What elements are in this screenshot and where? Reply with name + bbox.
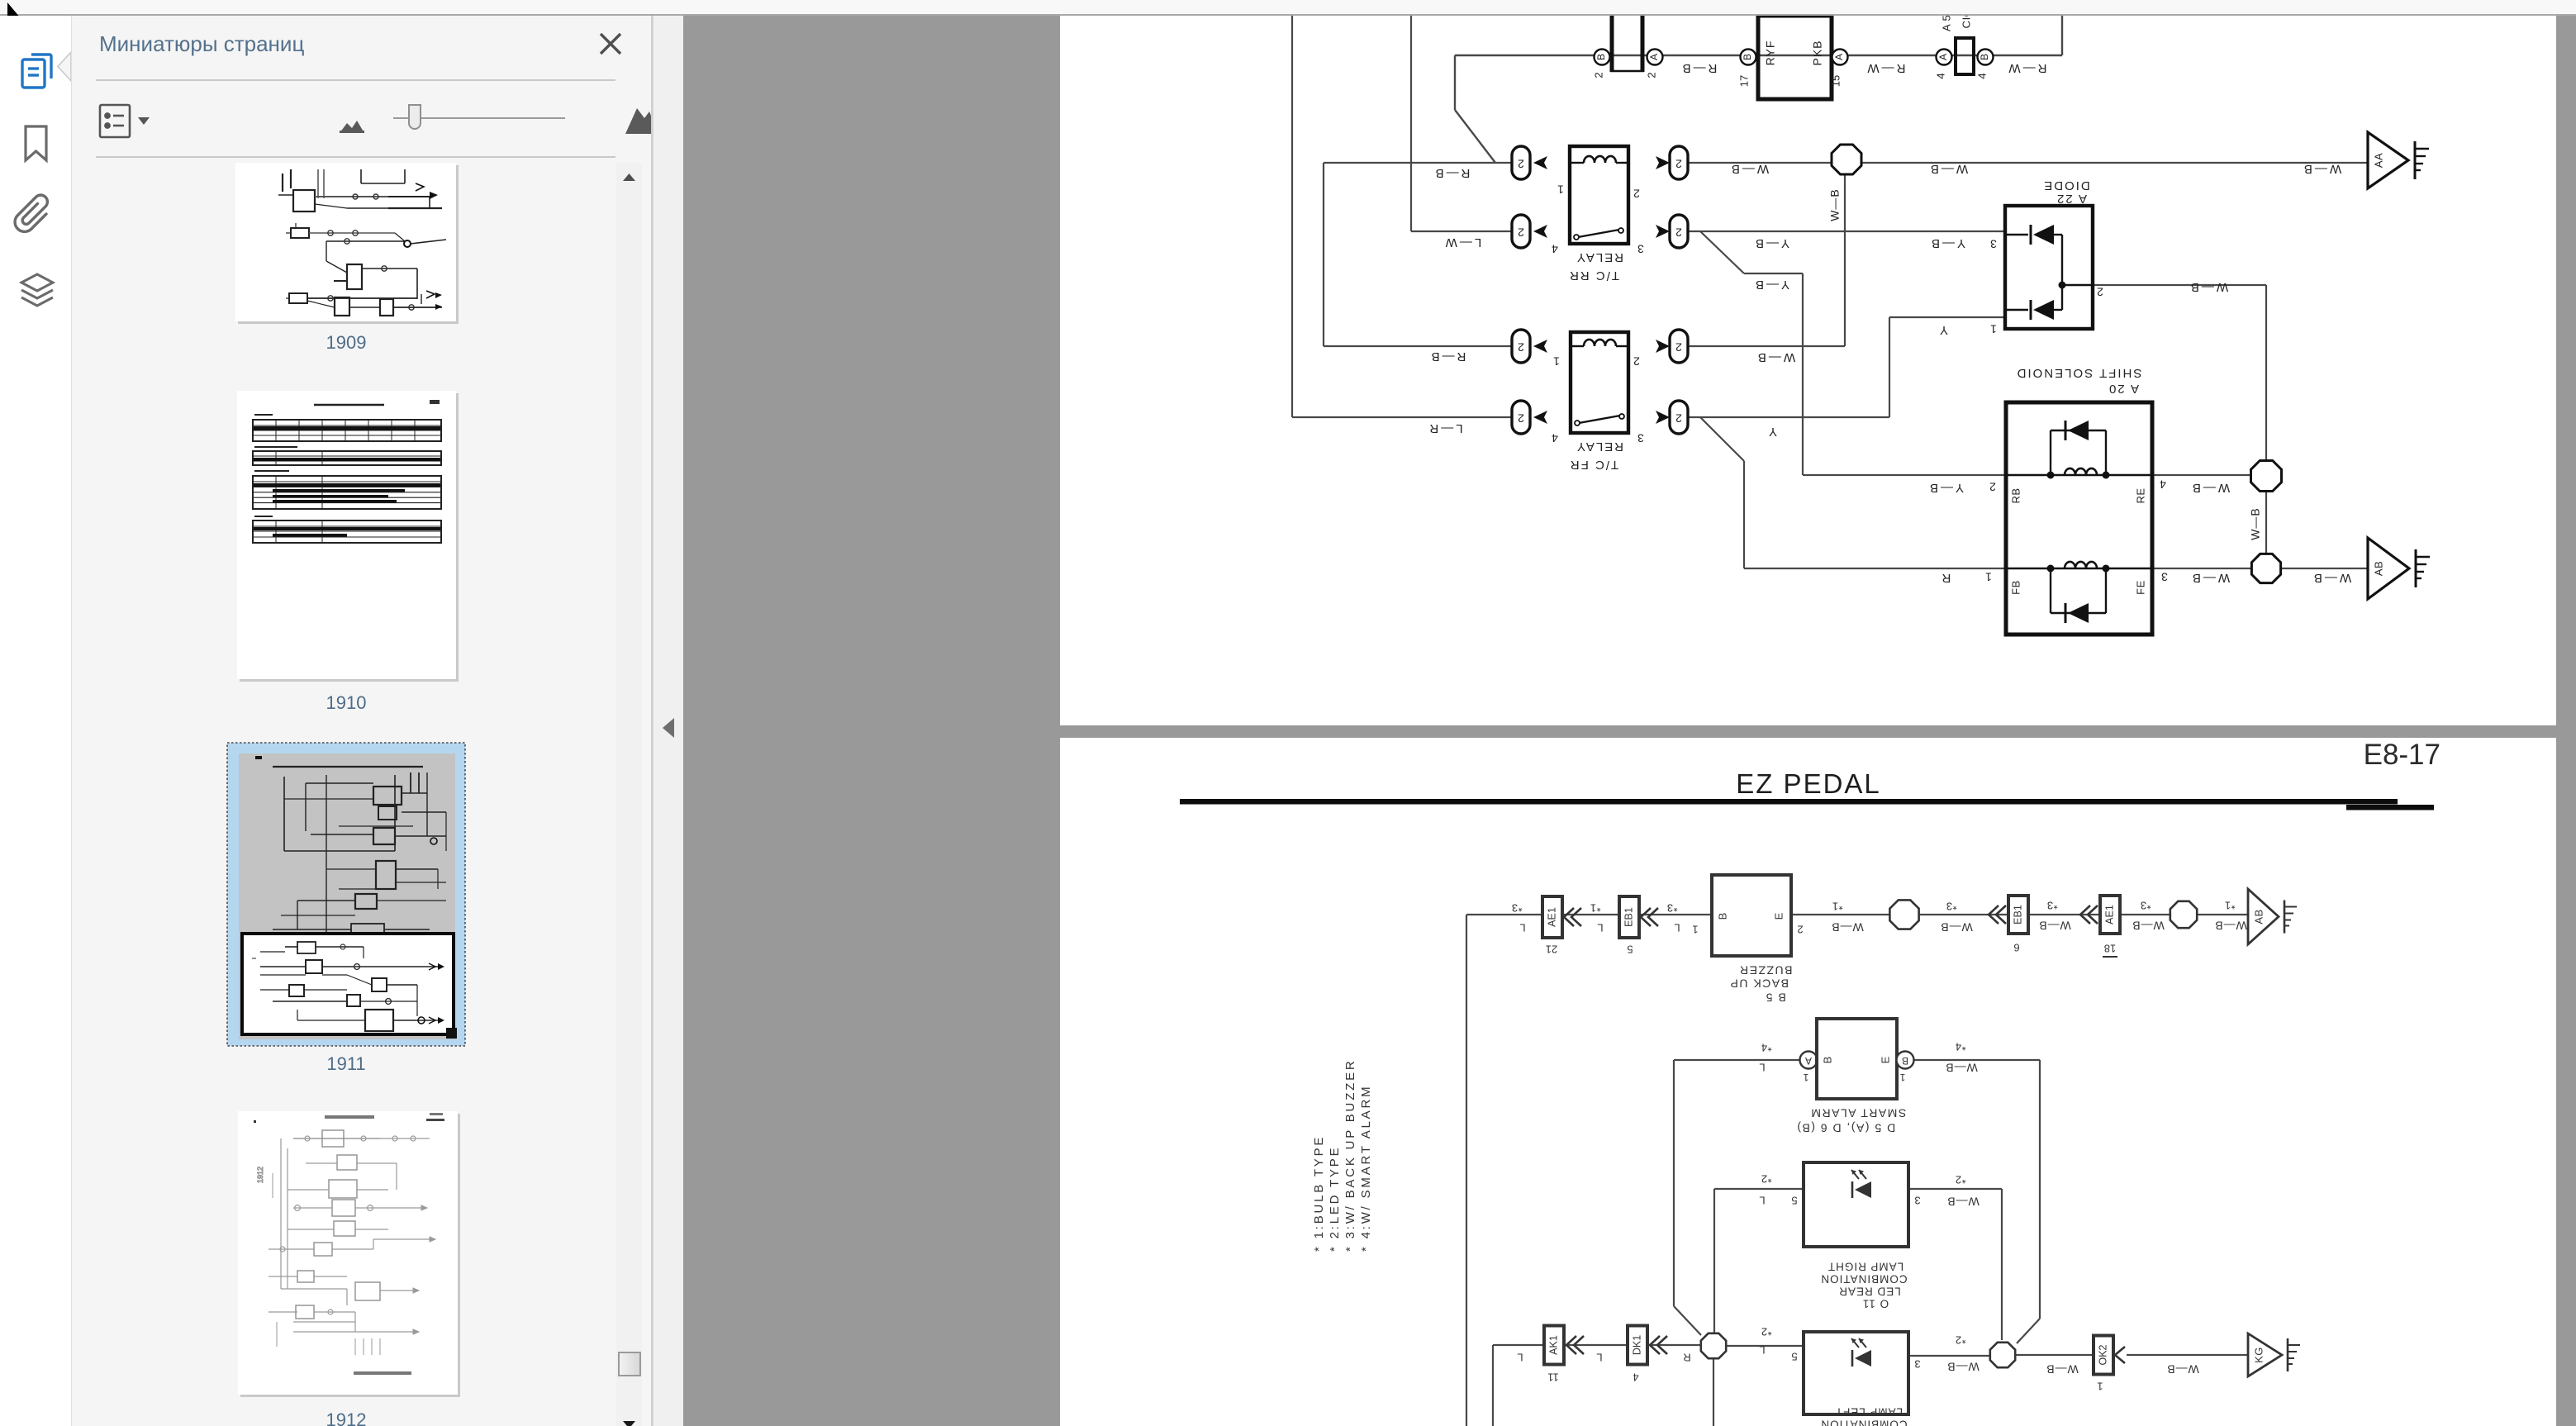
svg-text:4: 4 <box>1552 242 1558 255</box>
wire p1-15 <box>1700 231 1744 273</box>
wire p1-13 <box>1861 162 2368 164</box>
wire p1-22 <box>1889 317 1890 417</box>
wire p2-6 <box>2120 914 2171 915</box>
panel scrollbar <box>616 163 642 1426</box>
svg-text:Y: Y <box>1769 425 1777 439</box>
collapse arrow <box>660 717 677 739</box>
svg-text:A: A <box>1805 1055 1812 1067</box>
svg-text:3: 3 <box>1914 1195 1920 1207</box>
svg-text:R—B: R—B <box>1433 166 1471 180</box>
svg-text:A: A <box>1937 54 1949 60</box>
svg-text:O 11: O 11 <box>1862 1297 1889 1310</box>
svg-text:*2: *2 <box>1955 1174 1965 1186</box>
wire p2-10 <box>1913 1059 2040 1061</box>
svg-text:L: L <box>1759 1344 1765 1357</box>
wire p2-15 <box>2001 1189 2003 1340</box>
svg-text:L: L <box>1674 922 1680 934</box>
svg-text:E: E <box>1772 912 1785 920</box>
svg-text:1909: 1909 <box>326 332 367 353</box>
svg-text:*3: *3 <box>2140 900 2151 912</box>
svg-text:5: 5 <box>1791 1195 1797 1207</box>
svg-text:1911: 1911 <box>326 1053 365 1074</box>
svg-text:AE1: AE1 <box>2103 905 2115 925</box>
solenoid FB coil row <box>2006 568 2152 569</box>
svg-text:L: L <box>1759 1062 1765 1074</box>
connector OK2 (1) <box>2094 1336 2113 1375</box>
splice octagon S4 <box>1889 900 1918 929</box>
connector circle A <box>1800 1052 1818 1069</box>
svg-text:*2: *2 <box>1955 1334 1965 1347</box>
thumbnail page 1910 <box>237 391 456 679</box>
svg-text:W—B: W—B <box>2190 571 2230 585</box>
svg-text:A 22: A 22 <box>2056 192 2087 206</box>
wire p1-17 <box>1802 273 1804 475</box>
svg-text:W—B: W—B <box>1946 1195 1980 1208</box>
wire p1-18 <box>1803 474 2006 476</box>
svg-text:W—B: W—B <box>1756 350 1795 364</box>
wire p1-19 <box>1687 345 1845 347</box>
svg-text:R: R <box>1683 1352 1690 1364</box>
wire p1-5 <box>1324 345 1512 347</box>
junction block connector <box>1610 16 1614 72</box>
svg-text:1: 1 <box>1803 1072 1808 1083</box>
wire p2-17 <box>1492 1345 1494 1426</box>
svg-text:*4: *4 <box>1955 1041 1965 1053</box>
svg-text:Y—B: Y—B <box>1929 236 1965 250</box>
svg-text:15: 15 <box>1829 75 1842 87</box>
main canvas <box>683 16 2576 1426</box>
splice octagon S6 <box>1701 1333 1726 1358</box>
svg-text:A: A <box>1648 54 1660 60</box>
svg-text:Y—B: Y—B <box>1927 481 1964 495</box>
wire diagonal A <box>1674 1306 1701 1335</box>
svg-text:*3: *3 <box>1946 901 1956 913</box>
diode box A22 <box>2005 206 2093 329</box>
wire p1-25 <box>1743 461 1745 568</box>
wire p2-2 <box>1466 915 1467 1426</box>
svg-text:COMBINATION: COMBINATION <box>1820 1418 1907 1426</box>
svg-text:18: 18 <box>2104 943 2116 955</box>
relay block RYF/PKB <box>1758 16 1832 99</box>
svg-text:AE1: AE1 <box>1546 907 1557 927</box>
svg-text:R—B: R—B <box>1429 349 1466 364</box>
mouse cursor <box>7 2 31 39</box>
svg-text:21: 21 <box>1546 944 1557 956</box>
svg-text:2: 2 <box>1675 157 1682 170</box>
svg-text:W—B: W—B <box>1946 1360 1980 1373</box>
wire p2-13 <box>1713 1189 1715 1333</box>
svg-text:FB: FB <box>2009 580 2022 595</box>
wire p1-10 <box>1455 110 1495 163</box>
wire p2-11 <box>2039 1060 2041 1319</box>
svg-text:W—B: W—B <box>1729 162 1769 176</box>
svg-text:CIG: CIG <box>1960 16 1972 28</box>
RR pin4 pill connector <box>1512 215 1530 248</box>
svg-text:*1: *1 <box>1832 901 1842 913</box>
svg-text:5: 5 <box>1627 944 1633 956</box>
svg-text:B: B <box>1821 1057 1833 1064</box>
svg-text:R—B: R—B <box>1680 61 1718 75</box>
svg-text:PKB: PKB <box>1811 40 1824 65</box>
svg-text:3: 3 <box>1914 1358 1920 1371</box>
selected thumbnail 1911 highlight <box>227 743 465 1046</box>
svg-text:5: 5 <box>1791 1351 1797 1363</box>
wire p2-18 <box>1713 1359 1714 1426</box>
svg-text:*3: *3 <box>1511 902 1522 915</box>
svg-text:SMART ALARM: SMART ALARM <box>1810 1106 1906 1119</box>
svg-text:4: 4 <box>1975 73 1988 78</box>
svg-text:A 20: A 20 <box>2108 382 2139 396</box>
svg-text:RELAY: RELAY <box>1576 440 1623 454</box>
svg-text:2: 2 <box>1645 72 1657 78</box>
svg-text:17: 17 <box>1737 75 1750 87</box>
splice S1 octagon <box>1832 145 1861 174</box>
svg-text:T/C RR: T/C RR <box>1568 269 1619 283</box>
svg-text:*3: *3 <box>1666 902 1677 915</box>
wire p1-2 <box>1292 416 1512 418</box>
thumbnail page 1909 <box>235 163 456 321</box>
svg-text:A: A <box>1833 54 1845 60</box>
wire p1-29 <box>2265 491 2267 555</box>
FR pin2 pill connector <box>1670 330 1688 363</box>
ground AB <box>2368 538 2409 599</box>
connector A15 circle <box>1832 50 1848 65</box>
small mountain <box>340 121 364 133</box>
FR pin1 pill connector <box>1512 330 1530 363</box>
svg-text:SHIFT SOLENOID: SHIFT SOLENOID <box>2016 366 2142 380</box>
wire p2-1 <box>1466 914 1712 915</box>
window top strip <box>0 0 2576 16</box>
svg-text:B: B <box>1979 54 1990 60</box>
wire p2-3 <box>1791 914 1889 915</box>
svg-text:W—B: W—B <box>1831 920 1864 934</box>
svg-text:3: 3 <box>1637 431 1644 444</box>
svg-text:W—B: W—B <box>1928 162 1968 176</box>
T/C RR relay box <box>1570 146 1628 244</box>
big mountain <box>625 108 658 134</box>
svg-text:1: 1 <box>1692 924 1698 936</box>
ground KG <box>2248 1333 2282 1376</box>
wire p1-24 <box>1700 417 1744 461</box>
wire p2-21 <box>2016 1354 2094 1356</box>
svg-text:EB1: EB1 <box>1623 907 1634 927</box>
svg-text:L: L <box>1519 922 1525 934</box>
svg-text:A 50: A 50 <box>1940 16 1952 31</box>
svg-text:DIODE: DIODE <box>2042 178 2090 193</box>
wire p1-32 <box>2281 568 2368 569</box>
connector AE1 (18) <box>2100 896 2120 934</box>
splice S3 octagon <box>2251 554 2280 582</box>
connector AE1 (21) <box>1542 896 1562 938</box>
wire p2-7 <box>2196 914 2248 915</box>
svg-text:2: 2 <box>1797 924 1803 936</box>
svg-text:R: R <box>1942 571 1951 585</box>
svg-text:4: 4 <box>1552 431 1558 444</box>
svg-text:OK2: OK2 <box>2097 1344 2108 1365</box>
svg-text:RB: RB <box>2009 487 2022 503</box>
svg-text:L—R: L—R <box>1427 421 1462 435</box>
active panel notch <box>58 52 71 81</box>
svg-text:1912: 1912 <box>326 1409 367 1426</box>
svg-text:1: 1 <box>1557 183 1564 196</box>
svg-text:* 2:LED TYPE: * 2:LED TYPE <box>1328 1146 1342 1252</box>
svg-text:* 3:W/ BACK UP BUZZER: * 3:W/ BACK UP BUZZER <box>1343 1058 1357 1252</box>
shift solenoid box A20 <box>2006 402 2152 635</box>
wire p1-1 <box>1291 16 1293 417</box>
connector DK1 (4) <box>1628 1326 1647 1365</box>
svg-text:*1: *1 <box>2224 900 2235 912</box>
T/C FR relay box <box>1571 332 1628 433</box>
svg-text:*3: *3 <box>2046 900 2057 912</box>
svg-text:W—B: W—B <box>2046 1362 2079 1376</box>
svg-text:RE: RE <box>2134 487 2146 503</box>
panel toolbar <box>91 97 653 147</box>
svg-text:R—W: R—W <box>1865 61 1906 75</box>
splice octagon S7 <box>1990 1343 2015 1367</box>
svg-text:3: 3 <box>2161 570 2168 583</box>
svg-text:W—B: W—B <box>2312 571 2351 585</box>
ground AB <box>2248 889 2279 944</box>
wire p1-3 <box>1323 163 1324 346</box>
connector B17 circle <box>1741 50 1756 65</box>
svg-text:*1: *1 <box>1590 902 1600 915</box>
svg-text:DK1: DK1 <box>1631 1335 1642 1355</box>
svg-text:BACK UP: BACK UP <box>1729 977 1789 990</box>
options button <box>100 105 130 137</box>
svg-text:L—W: L—W <box>1443 235 1482 250</box>
FR relay switch <box>1579 416 1620 423</box>
left icon sidebar <box>0 16 71 1426</box>
slider thumb <box>409 105 421 129</box>
wire diagonal B <box>2017 1319 2040 1343</box>
svg-text:LED REAR: LED REAR <box>1838 1285 1901 1297</box>
svg-text:FE: FE <box>2134 580 2146 595</box>
wire p2-19 <box>1727 1345 1804 1347</box>
wire p1-6 <box>1410 16 1412 231</box>
svg-text:BUZZER: BUZZER <box>1739 963 1793 977</box>
svg-text:W—B: W—B <box>1828 188 1842 221</box>
svg-text:2: 2 <box>2097 285 2103 298</box>
wire p2-12 <box>1714 1188 1804 1190</box>
wire p1-16 <box>1744 273 1803 274</box>
svg-text:E8-17: E8-17 <box>2364 739 2441 771</box>
wire p2-14 <box>1908 1188 2002 1190</box>
svg-text:T/C FR: T/C FR <box>1569 458 1618 472</box>
connector AK1 (11) <box>1544 1326 1564 1365</box>
svg-text:2: 2 <box>1633 187 1640 200</box>
svg-text:2: 2 <box>1675 411 1682 425</box>
svg-text:W—B: W—B <box>2132 919 2165 932</box>
svg-text:KG: KG <box>2252 1347 2265 1363</box>
ground AA <box>2368 132 2408 188</box>
svg-text:4: 4 <box>2160 478 2166 491</box>
svg-text:1912: 1912 <box>256 1167 264 1183</box>
title rule <box>1180 799 2398 805</box>
svg-text:W—B: W—B <box>1945 1061 1978 1074</box>
wire p2-20 <box>1908 1355 1989 1357</box>
RR pin2 pill connector <box>1670 146 1688 179</box>
svg-text:1910: 1910 <box>326 692 367 713</box>
svg-text:2: 2 <box>1518 411 1524 425</box>
svg-text:2: 2 <box>1518 157 1524 170</box>
wire p2-16 <box>1493 1344 1700 1346</box>
diode internals <box>2005 234 2028 235</box>
svg-text:RYF: RYF <box>1764 40 1777 66</box>
svg-text:L: L <box>1517 1352 1523 1364</box>
wire p1-27 <box>2093 284 2266 286</box>
svg-text:1: 1 <box>2097 1381 2103 1393</box>
wire p1-23 <box>1889 316 2005 318</box>
smart alarm box <box>1817 1019 1897 1099</box>
svg-text:11: 11 <box>1547 1371 1559 1384</box>
svg-text:RELAY: RELAY <box>1576 250 1623 264</box>
svg-text:B: B <box>1716 913 1728 920</box>
wire p2-4 <box>1919 914 2008 915</box>
svg-text:LAMP RIGHT: LAMP RIGHT <box>1827 1260 1903 1272</box>
svg-text:Y: Y <box>1940 323 1948 337</box>
connector B2 circle <box>1595 50 1610 65</box>
connector EB1 (6) <box>2008 896 2028 934</box>
svg-text:Y—B: Y—B <box>1753 236 1789 250</box>
wire p1-7 <box>1411 231 1512 232</box>
svg-text:W—B: W—B <box>2038 919 2071 932</box>
svg-text:AK1: AK1 <box>1547 1335 1559 1355</box>
svg-text:AB: AB <box>2372 561 2384 576</box>
svg-text:W—B: W—B <box>2166 1362 2199 1376</box>
paperclip icon <box>15 195 47 231</box>
svg-text:B: B <box>1742 54 1753 60</box>
svg-text:W—B: W—B <box>2249 507 2262 540</box>
svg-text:L: L <box>1597 922 1603 934</box>
wire p1-21 <box>1687 416 1889 418</box>
back up buzzer box <box>1712 875 1791 956</box>
wire p1-8 <box>1455 55 2062 56</box>
svg-text:1: 1 <box>1553 354 1560 368</box>
svg-text:L: L <box>1759 1195 1765 1207</box>
svg-text:W—B: W—B <box>2214 919 2247 932</box>
RR pin1 pill connector <box>1512 146 1530 179</box>
close X <box>598 31 623 56</box>
panel right border <box>651 16 653 1426</box>
svg-text:2: 2 <box>1675 340 1682 354</box>
svg-text:COMBINATION: COMBINATION <box>1820 1272 1907 1285</box>
svg-text:6: 6 <box>2013 942 2019 954</box>
splice S2 octagon <box>2251 461 2282 492</box>
svg-text:W—B: W—B <box>2190 481 2230 495</box>
svg-text:AB: AB <box>2252 909 2265 924</box>
connector circle B <box>1897 1052 1914 1069</box>
svg-text:2: 2 <box>1518 340 1524 354</box>
svg-text:AA: AA <box>2372 153 2384 168</box>
wire p1-28 <box>2265 285 2267 461</box>
wire p1-14 <box>1687 231 2005 232</box>
svg-text:LAMP LEFT: LAMP LEFT <box>1835 1405 1903 1418</box>
svg-text:4: 4 <box>1934 73 1946 78</box>
svg-text:EZ PEDAL: EZ PEDAL <box>1736 768 1881 799</box>
wire p2-22 <box>2127 1354 2248 1356</box>
svg-text:W—B: W—B <box>2302 162 2341 176</box>
fuse A50 CIG <box>1937 50 1952 65</box>
wire p1-12 <box>1687 162 1832 164</box>
wire p1-11 <box>2061 16 2063 55</box>
wire p1-30 <box>2152 474 2251 476</box>
wire p1-4 <box>1324 162 1512 164</box>
svg-text:2: 2 <box>1633 354 1640 368</box>
svg-text:*2: *2 <box>1761 1326 1771 1338</box>
wire p2-5 <box>2028 914 2100 915</box>
FR pin3 pill connector <box>1670 401 1688 434</box>
wire p2-8 <box>1674 1059 1800 1061</box>
pages panel icon (active, blue) <box>22 55 51 88</box>
svg-text:B: B <box>1595 54 1607 60</box>
svg-text:W—B: W—B <box>2189 280 2228 294</box>
bookmark icon <box>26 126 46 160</box>
svg-text:D 5 (A), D 6 (B): D 5 (A), D 6 (B) <box>1796 1121 1895 1134</box>
svg-text:*4: *4 <box>1761 1042 1771 1054</box>
svg-text:2: 2 <box>1675 226 1682 239</box>
svg-text:L: L <box>1596 1352 1602 1364</box>
solenoid RB coil row <box>2006 474 2152 476</box>
svg-text:2: 2 <box>1592 72 1604 78</box>
connector EB1 (5) <box>1619 896 1639 938</box>
wire p1-9 <box>1454 55 1456 110</box>
white inset on page 1911 <box>242 934 454 1034</box>
svg-text:*2: *2 <box>1761 1173 1771 1186</box>
svg-text:1: 1 <box>1985 570 1992 583</box>
RR relay switch <box>1578 230 1619 237</box>
svg-text:* 1:BULB TYPE: * 1:BULB TYPE <box>1312 1135 1326 1252</box>
back up lamp box left <box>1804 1332 1908 1414</box>
wire p1-20 <box>1844 175 1846 346</box>
svg-text:2: 2 <box>1989 480 1996 493</box>
svg-text:1: 1 <box>1899 1072 1905 1083</box>
svg-text:3: 3 <box>1990 237 1997 250</box>
svg-text:E: E <box>1879 1056 1891 1063</box>
svg-text:R—W: R—W <box>2007 61 2047 75</box>
thumbnail page 1912 <box>238 1111 458 1395</box>
thumbnails panel <box>71 16 654 1426</box>
FR pin4 pill connector <box>1512 401 1530 434</box>
connector A2 circle <box>1647 50 1663 65</box>
splice octagon S5 <box>2170 901 2197 928</box>
RR pin3 pill connector <box>1670 215 1688 248</box>
svg-text:B 5: B 5 <box>1765 991 1786 1004</box>
svg-text:2: 2 <box>1518 226 1524 239</box>
svg-text:EB1: EB1 <box>2012 905 2023 925</box>
collapse strip <box>653 16 684 1426</box>
svg-text:B: B <box>1902 1055 1908 1067</box>
layers icon <box>21 274 53 306</box>
svg-text:Y—B: Y—B <box>1753 278 1789 292</box>
wire p2-9 <box>1673 1060 1675 1306</box>
slider track <box>393 117 565 119</box>
svg-text:* 4:W/ SMART ALARM: * 4:W/ SMART ALARM <box>1359 1085 1373 1252</box>
back up lamp box right <box>1804 1162 1908 1247</box>
svg-text:4: 4 <box>1633 1371 1638 1384</box>
svg-text:3: 3 <box>1637 242 1644 255</box>
thumbnail page 1911 <box>239 753 455 1039</box>
wire p1-26 <box>1744 568 2006 569</box>
svg-text:1: 1 <box>1990 322 1997 335</box>
svg-text:W—B: W—B <box>1940 920 1973 934</box>
wire p1-31 <box>2152 568 2251 569</box>
